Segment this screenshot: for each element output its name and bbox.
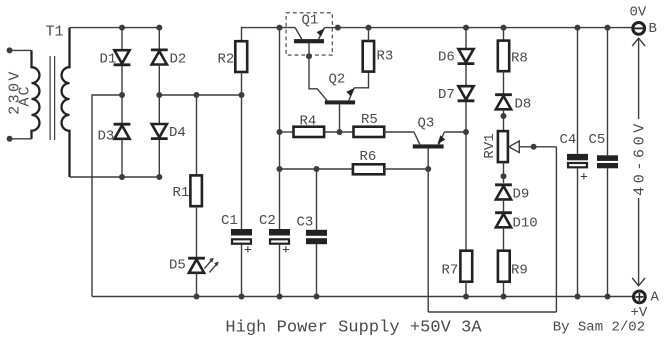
diode D10 bbox=[495, 211, 512, 214]
terminal A plus sign bbox=[635, 296, 643, 298]
junction dot D4 bottom bbox=[156, 174, 162, 180]
svg-text:R6: R6 bbox=[360, 149, 377, 165]
diode D6 bbox=[458, 62, 475, 65]
junction dot C5 bottom bbox=[605, 294, 611, 300]
annotation arrow line lower bbox=[638, 198, 640, 286]
resistor R6 bbox=[353, 164, 384, 174]
svg-text:A: A bbox=[651, 290, 660, 306]
junction dot C3 top bbox=[314, 166, 320, 172]
wire C3 bottom lead bbox=[316, 244, 318, 296]
svg-text:D7: D7 bbox=[438, 87, 455, 103]
junction dot RV1 bottom pin bbox=[501, 173, 507, 179]
wire Q3 collector down bbox=[427, 149, 429, 313]
wire mid rail right segment bbox=[159, 94, 241, 96]
svg-text:RV1: RV1 bbox=[482, 133, 498, 158]
svg-text:T1: T1 bbox=[46, 24, 64, 41]
LED arrows of D5 bbox=[204, 260, 212, 269]
junction dot C1 bottom bbox=[239, 294, 245, 300]
junction dot node top rail x279 bbox=[277, 25, 283, 31]
capacitor C2 plate top bbox=[269, 229, 290, 236]
wire RV1-D9 link bbox=[503, 162, 505, 183]
wire C1 bottom lead bbox=[241, 245, 243, 297]
junction dot R6 right bbox=[425, 166, 431, 172]
transformer T1 core line left bbox=[49, 56, 51, 140]
svg-text:High Power Supply +50V 3A: High Power Supply +50V 3A bbox=[225, 319, 482, 338]
svg-text:D9: D9 bbox=[513, 187, 530, 203]
diode D5 (LED) bbox=[188, 257, 205, 260]
wire R6 right lead bbox=[384, 168, 428, 170]
capacitor C5 plate bottom bbox=[597, 163, 618, 168]
transistor Q2 emitter lead (diagonal) bbox=[349, 88, 354, 101]
capacitor C2 plate bottom bbox=[270, 239, 289, 243]
wire C5 bottom lead bbox=[607, 168, 609, 296]
resistor R4 bbox=[294, 127, 325, 137]
dashed box around Q1 bbox=[286, 13, 332, 55]
junction dot D1 bottom bbox=[119, 92, 125, 98]
svg-text:D3: D3 bbox=[98, 129, 115, 145]
junction dot C5 top bbox=[605, 25, 611, 31]
resistor R1 bbox=[190, 175, 202, 206]
transistor Q3 emitter arrow bbox=[437, 135, 445, 144]
wire C4 bottom lead bbox=[577, 168, 579, 296]
transistor Q3 emitter lead (diagonal) bbox=[439, 132, 445, 144]
wire R7 bottom lead bbox=[465, 282, 467, 297]
wire D3 bottom lead bbox=[121, 139, 123, 177]
wire R9 bottom lead bbox=[503, 282, 505, 297]
wire C5 top lead bbox=[607, 28, 609, 156]
svg-text:+: + bbox=[244, 243, 252, 258]
wire C4 top lead bbox=[577, 28, 579, 154]
wire top rail AC segment bbox=[70, 27, 160, 29]
svg-text:R3: R3 bbox=[377, 49, 394, 65]
svg-text:R1: R1 bbox=[173, 185, 190, 201]
annotation arrow head top bbox=[632, 38, 645, 46]
transistor Q1 emitter arrow bbox=[317, 28, 325, 36]
wire D2-D4 link bbox=[158, 65, 160, 125]
transistor Q2 base bar bbox=[325, 100, 355, 104]
transformer T1 primary winding bbox=[32, 50, 40, 138]
diode D4 bbox=[151, 137, 168, 140]
wire feedback right up bbox=[555, 147, 557, 312]
svg-text:R7: R7 bbox=[442, 263, 459, 279]
annotation arrow head bottom bbox=[632, 278, 645, 286]
svg-text:+: + bbox=[282, 243, 290, 258]
svg-text:C4: C4 bbox=[560, 132, 577, 148]
svg-text:D1: D1 bbox=[100, 52, 117, 68]
wire top rail middle segment (R2 top to Q1) bbox=[242, 28, 296, 42]
transformer T1 primary terminal dot top bbox=[7, 47, 13, 53]
wire R4-R5 link bbox=[324, 131, 353, 133]
wire D5 bottom lead bbox=[196, 273, 198, 297]
wire R5 to Q3 base bbox=[384, 131, 414, 133]
terminal B minus sign bbox=[634, 27, 643, 29]
svg-text:R9: R9 bbox=[511, 263, 528, 279]
svg-text:D10: D10 bbox=[513, 216, 538, 232]
junction dot D3 bottom bbox=[119, 174, 125, 180]
svg-text:By Sam 2/02: By Sam 2/02 bbox=[553, 320, 645, 336]
junction dot Q1 emitter at rail bbox=[335, 25, 341, 31]
transformer T1 primary terminal dot bottom bbox=[7, 136, 13, 142]
transformer T1 primary lead bottom bbox=[10, 138, 32, 140]
diode D7 bbox=[458, 99, 475, 102]
wire top rail right segment (Q1 to terminal B) bbox=[338, 27, 632, 29]
junction dot R6 left bbox=[277, 166, 283, 172]
resistor R2 bbox=[235, 41, 247, 72]
wire D8 to RV1 bbox=[503, 109, 505, 131]
wire R1 top lead bbox=[196, 95, 198, 175]
transistor Q1 collector lead (diagonal) bbox=[295, 28, 302, 39]
wire D1 top lead bbox=[121, 28, 123, 51]
wire D10 to R9 bbox=[503, 227, 505, 250]
terminal A ring bbox=[634, 291, 646, 303]
wire R4 left lead bbox=[280, 131, 294, 133]
wire R8 top lead bbox=[503, 28, 505, 41]
annotation arrow line upper bbox=[638, 38, 640, 119]
transformer T1 primary lead top bbox=[10, 49, 32, 51]
wire Q1 emitter to rail bbox=[324, 27, 337, 29]
transistor Q1 emitter lead (diagonal) bbox=[319, 28, 325, 39]
wire D4 bottom lead bbox=[158, 140, 160, 177]
wire C1 top lead bbox=[241, 95, 243, 229]
wire D9-D10 link bbox=[503, 199, 505, 211]
wire R8-D8 link bbox=[503, 71, 505, 93]
svg-text:AC: AC bbox=[17, 84, 34, 106]
wire R1-D5 link bbox=[196, 206, 198, 257]
svg-text:R5: R5 bbox=[361, 112, 378, 128]
junction dot Q1 bottom pin bbox=[306, 53, 312, 59]
junction dot D6 top bbox=[463, 25, 469, 31]
potentiometer RV1 body bbox=[498, 131, 508, 162]
transistor Q3 base bar bbox=[413, 144, 444, 148]
junction dot R2 bottom bbox=[239, 92, 245, 98]
transformer T1 core line right bbox=[54, 56, 56, 140]
svg-text:C2: C2 bbox=[259, 213, 276, 229]
svg-text:R4: R4 bbox=[300, 114, 317, 130]
wire Q1 bottom pin bbox=[308, 43, 310, 56]
capacitor C3 plate bottom bbox=[306, 238, 327, 244]
diode D9 bbox=[495, 183, 512, 186]
wire C2 bottom lead bbox=[279, 245, 281, 297]
junction dot R4 left bbox=[277, 129, 283, 135]
svg-text:+: + bbox=[580, 170, 588, 185]
junction dot D2 bottom bbox=[156, 92, 162, 98]
svg-text:D4: D4 bbox=[169, 125, 186, 141]
svg-text:Q2: Q2 bbox=[329, 72, 346, 88]
svg-text:D8: D8 bbox=[515, 97, 532, 113]
diode D1 bbox=[114, 63, 131, 66]
wire C3 top lead bbox=[316, 169, 318, 230]
resistor R8 bbox=[498, 41, 509, 72]
wire R3 top lead bbox=[368, 28, 370, 41]
wire Q1 collector column bbox=[279, 28, 281, 229]
svg-text:R8: R8 bbox=[511, 51, 528, 67]
junction dot R7 bottom bbox=[463, 294, 469, 300]
wire R6 left lead bbox=[280, 168, 353, 170]
resistor R3 bbox=[363, 41, 374, 72]
junction dot Q2 collector at R4/R5 bbox=[337, 129, 343, 135]
svg-text:Q3: Q3 bbox=[418, 116, 435, 132]
wire D6 top lead bbox=[465, 28, 467, 50]
wire D1-D3 link bbox=[121, 66, 123, 123]
resistor R5 bbox=[354, 127, 385, 137]
capacitor C3 plate top bbox=[306, 230, 327, 236]
wire D2 top lead bbox=[158, 28, 160, 49]
junction dot D1 top bbox=[119, 25, 125, 31]
svg-text:D6: D6 bbox=[438, 50, 455, 66]
wire Q1 to Q2 base bbox=[309, 56, 327, 100]
capacitor C1 plate bottom bbox=[232, 239, 251, 243]
junction dot R8 top bbox=[501, 25, 507, 31]
capacitor C4 plate bottom bbox=[568, 163, 587, 167]
wire D6-D7 link bbox=[465, 65, 467, 87]
potentiometer RV1 wiper arrow bbox=[509, 141, 519, 153]
junction dot R1 top bbox=[194, 92, 200, 98]
junction dot R9 bottom bbox=[501, 294, 507, 300]
wire AC2 line (transformer bottom to D4) bbox=[70, 176, 160, 178]
wire feedback to RV1 wiper bbox=[519, 146, 556, 148]
svg-text:40-60V: 40-60V bbox=[631, 120, 648, 196]
junction dot C2 bottom bbox=[277, 294, 283, 300]
junction dot C3 bottom bbox=[314, 294, 320, 300]
svg-text:Q1: Q1 bbox=[302, 13, 319, 29]
junction dot C4 top bbox=[575, 25, 581, 31]
junction dot wiper node bbox=[531, 144, 537, 150]
transistor Q1 base bar bbox=[294, 39, 324, 43]
wire D7 to R7 bbox=[465, 102, 467, 251]
wire feedback bottom bbox=[428, 311, 556, 313]
transistor Q2 emitter arrow bbox=[346, 88, 354, 96]
wire R2 bottom lead bbox=[241, 72, 243, 95]
svg-text:D5: D5 bbox=[169, 258, 186, 274]
svg-text:0V: 0V bbox=[630, 5, 647, 21]
wire mid rail left segment bbox=[92, 95, 122, 297]
wire Q2 emitter to R3 bbox=[354, 72, 368, 88]
svg-text:C5: C5 bbox=[589, 132, 606, 148]
wire Q3 emitter to D7 node bbox=[444, 131, 466, 133]
resistor R9 bbox=[498, 251, 510, 282]
capacitor C4 plate top bbox=[567, 154, 588, 160]
transistor Q3 base lead (diagonal) bbox=[414, 132, 420, 144]
svg-text:D2: D2 bbox=[170, 52, 187, 68]
junction dot R3 top bbox=[366, 25, 372, 31]
diode D8 bbox=[495, 93, 512, 96]
junction dot RV1 top pin bbox=[501, 113, 507, 119]
junction dot C4 bottom bbox=[575, 294, 581, 300]
transformer T1 secondary winding bbox=[62, 28, 70, 177]
wire bottom rail bbox=[92, 296, 632, 298]
svg-text:B: B bbox=[649, 21, 657, 37]
junction dot D2 top bbox=[156, 25, 162, 31]
svg-text:C1: C1 bbox=[221, 213, 238, 229]
capacitor C1 plate top bbox=[231, 229, 252, 236]
junction dot Q3 emitter node bbox=[463, 129, 469, 135]
svg-text:C3: C3 bbox=[297, 215, 314, 231]
junction dot D5 bottom bbox=[194, 294, 200, 300]
diode D3 bbox=[114, 123, 131, 126]
terminal B ring bbox=[633, 23, 645, 35]
diode D2 bbox=[151, 49, 168, 52]
wire Q2 collector bbox=[339, 104, 341, 132]
capacitor C5 plate top bbox=[597, 155, 618, 161]
svg-text:R2: R2 bbox=[218, 52, 235, 68]
resistor R7 bbox=[460, 251, 472, 282]
